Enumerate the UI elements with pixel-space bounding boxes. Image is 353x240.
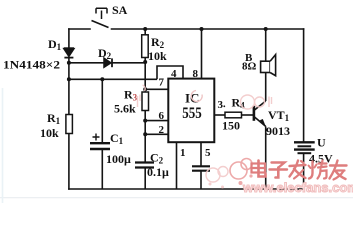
wire pin7: [145, 88, 168, 90]
svg-text:U: U: [317, 136, 326, 150]
svg-text:5.6k: 5.6k: [114, 102, 136, 116]
svg-text:5: 5: [205, 147, 211, 159]
wire D2 row: [69, 62, 146, 64]
wire R2 bottom lead: [144, 58, 146, 93]
dian: [252, 161, 266, 177]
wire C1 lead upper: [101, 79, 103, 142]
resistor R1: [66, 115, 73, 134]
svg-text:100μ: 100μ: [106, 152, 131, 166]
svg-text:555: 555: [182, 105, 202, 122]
op-amp U1: IC 555 box: [168, 79, 214, 143]
node R2 top rail: [143, 27, 147, 31]
svg-text:2: 2: [159, 124, 165, 136]
wire R3 bottom lead: [144, 111, 146, 163]
wire right rail lower: [303, 154, 305, 189]
wire D1 to junctions to R1: [68, 58, 70, 115]
node pin2: [143, 132, 147, 136]
watermark fragments pink rings mid: [138, 85, 272, 189]
wire C1 lead lower: [101, 149, 103, 189]
svg-text:10k: 10k: [148, 49, 167, 63]
wire right rail upper: [303, 29, 305, 141]
wire left rail top corner to D1: [68, 29, 70, 48]
wire pin2: [145, 133, 168, 135]
svg-text:1: 1: [180, 147, 186, 159]
wire top rail right segment: [112, 28, 304, 30]
capacitor C1: [90, 134, 110, 150]
svg-text:7: 7: [159, 77, 165, 89]
wire collector up to speaker: [265, 29, 267, 101]
zi: [270, 163, 288, 178]
wire y79 row to staple: [69, 78, 157, 80]
wire pin3: [214, 114, 225, 116]
svg-text:1N4148×2: 1N4148×2: [3, 58, 60, 72]
svg-text:8Ω: 8Ω: [242, 61, 257, 73]
faint page edge lines: [0, 197, 353, 199]
wire pin8: [201, 29, 203, 78]
wire pin6: [145, 120, 168, 122]
node C1 tee: [100, 77, 104, 81]
switch SA: [92, 8, 109, 27]
watermark text dian-zi-fa-shao-you (drawn glyphs): [252, 161, 347, 180]
emitter arrow: [260, 119, 266, 127]
fa: [290, 161, 306, 179]
wire pin1: [176, 142, 178, 189]
wire R1 bottom to bottom rail: [68, 134, 70, 190]
svg-text:6: 6: [159, 110, 165, 122]
resistor R2: [142, 35, 149, 58]
watermark logo rings bottom right: [230, 159, 253, 186]
svg-text:3: 3: [218, 99, 224, 111]
wire R4 to base: [242, 114, 254, 116]
watermark url www.elecfans.com: [243, 180, 353, 195]
node pin8 top rail: [200, 27, 204, 31]
capacitor C2: [135, 163, 154, 168]
diode D2: [104, 58, 112, 67]
node speaker top rail: [264, 27, 268, 31]
svg-text:9013: 9013: [266, 124, 290, 138]
resistor R3: [142, 92, 149, 111]
speaker B: [261, 55, 276, 76]
battery U: [294, 142, 315, 153]
node pin6: [143, 119, 147, 123]
diode D1: [64, 48, 74, 57]
wire C2 lower lead: [144, 168, 146, 190]
wire top rail left segment: [69, 28, 90, 30]
transistor Q1 VT1: [254, 101, 266, 126]
resistor R4: [225, 112, 242, 118]
svg-text:150: 150: [222, 119, 240, 133]
wire bottom rail: [69, 188, 304, 190]
node A: D1 bottom junction: [67, 61, 71, 65]
svg-text:0.1μ: 0.1μ: [147, 165, 169, 179]
svg-text:10k: 10k: [40, 126, 59, 140]
wire R2 top lead: [144, 29, 146, 35]
wire emitter down to rail: [265, 126, 267, 189]
node B: left rail second junction: [67, 77, 71, 81]
wire pin5 upper: [200, 142, 202, 166]
you: [330, 161, 347, 180]
node pin7: [143, 87, 147, 91]
svg-text:SA: SA: [112, 3, 128, 17]
wire pin4 staple: [157, 66, 183, 79]
capacitor C3 bypass on pin5: [192, 166, 210, 170]
node R2 bottom / D2: [143, 60, 147, 64]
shao: [309, 161, 327, 179]
wire pin5 lower: [200, 171, 202, 189]
